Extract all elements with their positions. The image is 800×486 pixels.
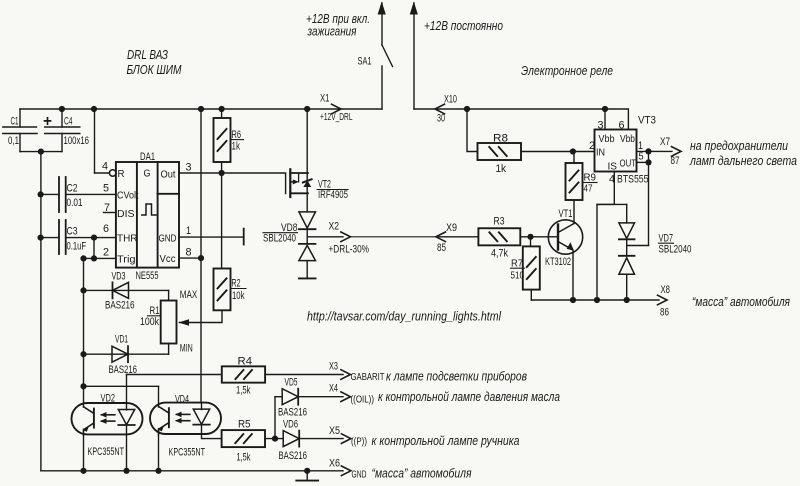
svg-text:X8: X8 bbox=[661, 284, 671, 296]
svg-text:X1: X1 bbox=[320, 93, 330, 105]
svg-text:VT1: VT1 bbox=[559, 208, 573, 220]
svg-text:4,7k: 4,7k bbox=[491, 248, 508, 260]
svg-text:7: 7 bbox=[104, 202, 110, 214]
svg-text:X10: X10 bbox=[444, 94, 457, 106]
svg-text:2: 2 bbox=[103, 247, 109, 259]
svg-text:VD5: VD5 bbox=[285, 377, 298, 389]
svg-text:Vbb: Vbb bbox=[620, 133, 635, 145]
svg-text:X4: X4 bbox=[329, 383, 338, 395]
svg-text:8: 8 bbox=[186, 247, 192, 259]
svg-text:X6: X6 bbox=[329, 458, 340, 470]
svg-text:+12V_DRL: +12V_DRL bbox=[320, 111, 353, 123]
svg-text:R: R bbox=[118, 168, 125, 180]
svg-text:GND: GND bbox=[352, 469, 367, 481]
svg-text:Vbb: Vbb bbox=[599, 133, 615, 145]
svg-text:BAS216: BAS216 bbox=[109, 364, 138, 376]
svg-text:6: 6 bbox=[619, 120, 625, 132]
svg-text:10k: 10k bbox=[232, 290, 245, 302]
svg-text:GND: GND bbox=[159, 233, 177, 245]
svg-text:SBL2040: SBL2040 bbox=[659, 244, 692, 256]
svg-text:DIS: DIS bbox=[117, 208, 135, 220]
svg-text:2: 2 bbox=[589, 140, 595, 152]
svg-text:5: 5 bbox=[103, 183, 109, 195]
svg-text:1: 1 bbox=[638, 140, 643, 152]
svg-text:зажигания: зажигания bbox=[307, 25, 357, 39]
svg-text:GABARIT: GABARIT bbox=[351, 371, 385, 383]
svg-text:1,5k: 1,5k bbox=[237, 452, 251, 464]
svg-text:к контрольной лампе давления м: к контрольной лампе давления масла bbox=[378, 390, 560, 404]
svg-text:VD3: VD3 bbox=[112, 271, 126, 283]
svg-text:X9: X9 bbox=[446, 222, 457, 234]
svg-text:IN: IN bbox=[596, 147, 605, 159]
svg-text:BAS216: BAS216 bbox=[279, 450, 308, 462]
svg-text:5: 5 bbox=[639, 152, 644, 163]
svg-text:+: + bbox=[43, 113, 52, 130]
svg-text:47: 47 bbox=[584, 183, 593, 195]
svg-text:1k: 1k bbox=[232, 141, 241, 153]
svg-text:C1: C1 bbox=[11, 116, 19, 128]
svg-text:VD2: VD2 bbox=[101, 393, 116, 405]
svg-text:BAS216: BAS216 bbox=[105, 300, 135, 312]
svg-text:Vcc: Vcc bbox=[160, 253, 176, 265]
svg-text:KPC355NT: KPC355NT bbox=[169, 447, 206, 459]
svg-text:X5: X5 bbox=[329, 425, 340, 437]
svg-text:100x16: 100x16 bbox=[64, 135, 90, 147]
svg-text:на предохранители: на предохранители bbox=[690, 139, 788, 153]
svg-text:MAX: MAX bbox=[180, 289, 198, 301]
svg-text:((OIL)): ((OIL)) bbox=[351, 394, 375, 406]
svg-text:R2: R2 bbox=[232, 278, 241, 290]
svg-text:86: 86 bbox=[660, 307, 669, 319]
svg-text:Электронное реле: Электронное реле bbox=[521, 64, 613, 78]
svg-text:C2: C2 bbox=[67, 183, 78, 195]
svg-text:Out: Out bbox=[161, 169, 176, 181]
svg-text:85: 85 bbox=[437, 242, 446, 254]
svg-text:“масса” автомобиля: “масса” автомобиля bbox=[372, 467, 472, 481]
svg-text:((P)): ((P)) bbox=[351, 436, 367, 448]
svg-text:1,5k: 1,5k bbox=[236, 385, 251, 397]
svg-text:C3: C3 bbox=[67, 226, 78, 238]
svg-text:0,1: 0,1 bbox=[8, 135, 19, 147]
svg-text:KT3102: KT3102 bbox=[545, 256, 571, 268]
svg-text:CVolt: CVolt bbox=[117, 190, 139, 202]
svg-text:R5: R5 bbox=[238, 419, 251, 431]
svg-text:VD6: VD6 bbox=[283, 419, 298, 431]
svg-text:ламп дальнего света: ламп дальнего света bbox=[689, 154, 797, 168]
svg-text:+12В постоянно: +12В постоянно bbox=[424, 19, 503, 33]
svg-text:100k: 100k bbox=[140, 316, 159, 328]
svg-text:KPC355NT: KPC355NT bbox=[88, 446, 125, 458]
svg-text:BAS216: BAS216 bbox=[278, 407, 307, 419]
svg-text:THR: THR bbox=[117, 233, 138, 245]
svg-text:6: 6 bbox=[103, 223, 109, 235]
svg-text:SBL2040: SBL2040 bbox=[263, 233, 296, 245]
svg-text:3: 3 bbox=[598, 120, 604, 132]
svg-text:X3: X3 bbox=[329, 361, 338, 373]
svg-text:DA1: DA1 bbox=[140, 151, 155, 163]
svg-text:VD4: VD4 bbox=[175, 394, 189, 406]
svg-text:0.1uF: 0.1uF bbox=[67, 241, 87, 253]
svg-text:X2: X2 bbox=[329, 221, 340, 233]
svg-text:VT3: VT3 bbox=[638, 115, 656, 127]
svg-text:BTS555: BTS555 bbox=[617, 174, 649, 186]
svg-text:OUT: OUT bbox=[620, 158, 637, 170]
svg-text:1k: 1k bbox=[496, 163, 507, 175]
svg-text:+DRL-30%: +DRL-30% bbox=[329, 244, 370, 256]
svg-text:3: 3 bbox=[186, 162, 192, 174]
svg-text:R8: R8 bbox=[493, 133, 508, 145]
svg-text:G: G bbox=[144, 168, 151, 180]
svg-text:к лампе подсветки приборов: к лампе подсветки приборов bbox=[386, 370, 527, 384]
svg-text:NE555: NE555 bbox=[136, 270, 159, 282]
svg-text:Trig: Trig bbox=[117, 254, 136, 266]
svg-text:IRF4905: IRF4905 bbox=[318, 189, 348, 201]
svg-text:1: 1 bbox=[186, 225, 191, 237]
svg-text:C4: C4 bbox=[64, 116, 73, 128]
svg-text:510: 510 bbox=[511, 270, 525, 282]
svg-text:http://tavsar.com/day_running_: http://tavsar.com/day_running_lights.htm… bbox=[307, 309, 502, 324]
svg-text:4: 4 bbox=[102, 161, 108, 173]
svg-text:30: 30 bbox=[437, 113, 445, 125]
svg-text:IS: IS bbox=[608, 161, 618, 173]
svg-text:87: 87 bbox=[671, 155, 680, 167]
svg-text:R4: R4 bbox=[238, 356, 253, 368]
svg-text:4: 4 bbox=[609, 174, 615, 186]
svg-text:R3: R3 bbox=[494, 216, 505, 228]
svg-text:SA1: SA1 bbox=[358, 56, 372, 68]
svg-text:VD1: VD1 bbox=[115, 334, 128, 346]
svg-text:к контрольной лампе ручника: к контрольной лампе ручника bbox=[372, 434, 520, 448]
svg-text:MIN: MIN bbox=[180, 342, 193, 354]
svg-text:БЛОК ШИМ: БЛОК ШИМ bbox=[127, 63, 182, 77]
svg-text:X7: X7 bbox=[660, 136, 670, 148]
svg-text:0.01: 0.01 bbox=[67, 197, 83, 209]
svg-text:“масса” автомобиля: “масса” автомобиля bbox=[692, 295, 790, 309]
svg-text:DRL ВАЗ: DRL ВАЗ bbox=[127, 48, 168, 62]
